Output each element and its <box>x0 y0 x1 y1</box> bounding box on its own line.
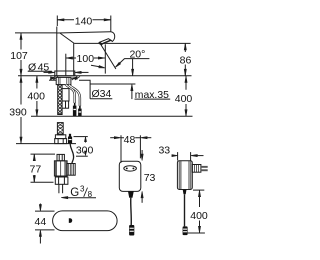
dimension 48 right arrow <box>141 137 148 139</box>
nut on sleeve <box>62 101 69 108</box>
svg-text:Ø34: Ø34 <box>92 88 112 100</box>
svg-text:400: 400 <box>175 93 193 105</box>
dimension 48 line stubs <box>121 137 140 139</box>
svg-text:300: 300 <box>76 144 94 156</box>
deck section hatch right <box>72 76 80 80</box>
svg-text:400: 400 <box>190 210 208 222</box>
faucet back slope <box>60 33 74 43</box>
dimension 77 line <box>33 154 35 182</box>
dimension 107 line <box>20 33 22 76</box>
max.35 up arrow <box>131 84 133 91</box>
valve bottom hex nut <box>55 177 68 184</box>
label Ø45 leader <box>44 71 49 73</box>
dimension 390 up arrow <box>20 76 22 83</box>
20 degree leader line <box>116 59 150 67</box>
rod end line (390 bottom extension) <box>16 143 76 145</box>
max.35 underline <box>135 98 171 100</box>
lock nut under deck <box>56 77 71 84</box>
label Ø45 underline <box>28 70 52 72</box>
dimension 400 right down arrow at rail <box>185 110 187 117</box>
dimension 140 line <box>57 19 111 21</box>
dimension 400 right up arrow at deck <box>185 76 187 83</box>
svg-text:3: 3 <box>80 185 85 194</box>
power supply body <box>177 161 192 190</box>
dimension 400 bottom-right top extension <box>193 189 204 191</box>
dimension 44 top extension <box>35 210 55 212</box>
dimension 86 down arrow <box>184 69 186 76</box>
power supply cable <box>184 194 186 226</box>
20 degree leader arrow <box>115 62 120 67</box>
dimension 100 line <box>66 57 105 59</box>
dimension 44 bottom arrow <box>39 235 41 244</box>
label G3/8 underline + leader arrow <box>67 197 97 199</box>
faucet spout tip curve <box>111 32 115 42</box>
hose 1 connector <box>74 103 76 106</box>
dimension 48 left tick <box>120 135 122 163</box>
dimension 77 bottom extension <box>31 181 54 183</box>
base column right edge <box>73 43 75 76</box>
dimension 86 line <box>184 43 186 75</box>
svg-text:77: 77 <box>30 164 42 176</box>
dimension 77 down arrow <box>33 176 35 183</box>
rail line (400 bottom extension) <box>31 115 193 117</box>
dimension 77 up arrow <box>33 154 35 161</box>
svg-text:400: 400 <box>27 91 45 103</box>
svg-text:20°: 20° <box>129 49 145 61</box>
faucet underside line <box>74 42 190 44</box>
svg-text:44: 44 <box>35 216 47 228</box>
dimension 100 right arrow <box>98 57 105 59</box>
dimension 140 right arrow <box>104 19 111 21</box>
dimension 140 left tick <box>56 16 58 27</box>
solenoid plug (black) <box>68 137 72 144</box>
hose 2 <box>69 85 80 106</box>
dimension 77 top extension <box>31 153 56 155</box>
solenoid cable <box>70 144 74 164</box>
Ø34 label underline <box>90 98 112 100</box>
power supply strain relief <box>183 190 187 195</box>
solenoid coil box <box>67 164 75 176</box>
power supply cable connector <box>183 226 188 235</box>
nut facet lines <box>58 139 63 144</box>
E-box cable connector <box>129 225 134 236</box>
dimension 300 top extension <box>74 136 88 138</box>
deck underside step line A <box>79 80 135 99</box>
valve body <box>54 161 67 176</box>
spacer sleeve beside rod <box>62 89 69 101</box>
dimension 73 top arrow <box>141 150 143 156</box>
svg-text:73: 73 <box>144 172 156 184</box>
dimension 400 left up arrow <box>36 76 38 83</box>
E-box body <box>119 161 141 191</box>
power supply body shading lines <box>179 161 191 190</box>
dimension 33 left tick <box>177 152 179 160</box>
dimension 86 up arrow <box>184 44 186 51</box>
dimension 73 bottom arrow <box>141 197 143 203</box>
svg-text:86: 86 <box>180 55 192 67</box>
svg-text:33: 33 <box>158 144 170 156</box>
dimension 33 right arrow <box>197 155 204 157</box>
dimension 107 up arrow <box>20 33 22 40</box>
E-box cable strain relief <box>128 191 134 197</box>
20 degree slant leg <box>100 44 116 69</box>
hose 1 <box>66 85 75 103</box>
dimension 100 left tick <box>65 54 67 76</box>
svg-text:100: 100 <box>77 53 95 65</box>
slanted leader arrow to aerator axis <box>91 65 100 67</box>
svg-text:G: G <box>70 187 79 199</box>
valve outlet pipe <box>59 184 63 193</box>
threaded rod (hatched) <box>58 85 62 115</box>
dimension 48 left arrow <box>114 137 121 139</box>
dimension 100 left arrow <box>66 57 73 59</box>
svg-text:390: 390 <box>9 106 27 118</box>
aerator outlined parallelogram <box>99 39 111 44</box>
dimension 300 bottom extension <box>76 155 88 157</box>
power supply plug block <box>192 165 201 173</box>
dimension 300 up arrow <box>84 137 86 142</box>
faucet body top edge <box>57 32 111 33</box>
dimension 33 left arrow <box>172 155 173 157</box>
deck line <box>18 75 192 77</box>
dimension 48 right tick <box>139 135 141 158</box>
dimension 400 left down arrow <box>36 110 38 117</box>
sensor window (black) <box>69 218 72 223</box>
washer <box>55 135 65 139</box>
flange pointer arrow <box>75 71 82 73</box>
dimension 100 right tick (aerator axis) <box>104 44 106 73</box>
lock nut <box>55 139 67 144</box>
dimension 107 extension line <box>15 32 57 34</box>
rod lower segment (hatched) <box>57 123 63 135</box>
dimension 390 down arrow <box>20 137 22 144</box>
dimension 300 down arrow <box>84 151 86 156</box>
hole right arrow <box>71 77 77 79</box>
dimension 44 bottom extension <box>35 229 55 231</box>
faucet body back edge (vertical, also 140 ext) <box>56 27 58 76</box>
svg-text:107: 107 <box>10 50 28 62</box>
dimension 300 line <box>85 137 87 143</box>
dimension 400 bottom-right down arrow <box>198 226 200 233</box>
aerator thick lower edge <box>99 40 111 44</box>
deck section underside line left of hole <box>49 79 57 81</box>
pill outline <box>53 211 118 231</box>
dimension 44 top arrow <box>39 204 41 207</box>
dimension 107 down arrow <box>20 69 22 76</box>
power supply pins <box>201 166 208 168</box>
dimension 400 bottom-right line <box>199 190 201 233</box>
dimension 400 right line <box>185 76 187 117</box>
E-box cable <box>130 198 133 225</box>
E-box socket oval <box>124 166 137 171</box>
dimension 400 left line <box>36 76 38 117</box>
dimension 400 bottom-right bottom extension <box>188 232 205 234</box>
svg-text:140: 140 <box>75 15 93 27</box>
E-box socket holes <box>126 167 128 169</box>
hole left arrow <box>51 77 57 79</box>
dimension 400 bottom-right up arrow <box>198 190 200 197</box>
dimension 140 left arrow <box>58 19 65 21</box>
dimension 390 line <box>20 76 22 144</box>
svg-text:48: 48 <box>124 134 136 146</box>
dimension 140 right tick <box>110 16 112 32</box>
deck section hatch left <box>50 76 58 80</box>
20 degree vertical leg with down arrow <box>132 59 134 76</box>
valve top nut <box>57 154 64 160</box>
escutcheon flange <box>55 71 75 76</box>
hose 2 connector <box>79 106 81 109</box>
dimension 33 right tick <box>190 152 192 160</box>
